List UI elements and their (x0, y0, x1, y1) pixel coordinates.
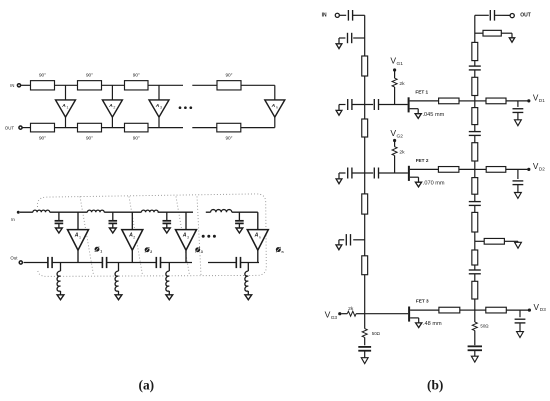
svg-text:2k: 2k (348, 306, 354, 312)
svg-text:(a): (a) (138, 377, 154, 392)
svg-text:90°: 90° (133, 135, 140, 140)
svg-text:IN: IN (10, 83, 14, 88)
svg-text:V: V (390, 128, 396, 138)
svg-text:90°: 90° (39, 73, 46, 78)
svg-text:(b): (b) (427, 377, 443, 392)
svg-text:V: V (325, 310, 331, 320)
svg-text:90°: 90° (86, 73, 93, 78)
svg-text:FET 3: FET 3 (416, 299, 429, 304)
svg-text:90°: 90° (39, 135, 46, 140)
svg-text:.045 mm: .045 mm (423, 112, 445, 118)
svg-text:2k: 2k (399, 81, 405, 87)
svg-text:Out: Out (10, 255, 18, 260)
svg-text:D3: D3 (540, 307, 546, 312)
svg-text:.070 mm: .070 mm (423, 180, 445, 186)
svg-text:G2: G2 (397, 133, 404, 139)
svg-text:V: V (534, 303, 540, 312)
svg-text:IN: IN (322, 13, 327, 19)
svg-text:1: 1 (100, 250, 102, 254)
svg-text:1: 1 (79, 235, 81, 239)
svg-text:3: 3 (160, 106, 162, 110)
svg-text:OUT: OUT (520, 13, 531, 19)
svg-text:50Ω: 50Ω (372, 331, 381, 336)
svg-text:2k: 2k (399, 150, 405, 156)
svg-text:.48 mm: .48 mm (423, 321, 442, 327)
svg-text:D2: D2 (539, 166, 545, 171)
svg-text:V: V (390, 56, 396, 66)
svg-text:50Ω: 50Ω (480, 324, 489, 329)
svg-text:D1: D1 (539, 98, 545, 103)
svg-text:n: n (282, 250, 284, 254)
svg-text:n: n (276, 106, 278, 110)
svg-text:FET 1: FET 1 (415, 89, 428, 94)
svg-text:2: 2 (150, 250, 152, 254)
svg-text:In: In (11, 217, 15, 222)
svg-text:90°: 90° (225, 73, 232, 78)
svg-text:3: 3 (201, 250, 203, 254)
svg-text:1: 1 (67, 106, 69, 110)
svg-text:3: 3 (187, 235, 189, 239)
svg-text:2: 2 (113, 106, 115, 110)
svg-text:G1: G1 (397, 61, 404, 67)
svg-text:FET 2: FET 2 (416, 158, 429, 163)
svg-text:90°: 90° (86, 135, 93, 140)
svg-text:90°: 90° (225, 135, 232, 140)
svg-text:90°: 90° (133, 73, 140, 78)
svg-text:2: 2 (133, 235, 135, 239)
svg-text:G3: G3 (331, 315, 338, 321)
svg-text:OUT: OUT (5, 126, 15, 131)
svg-text:n: n (259, 235, 261, 239)
